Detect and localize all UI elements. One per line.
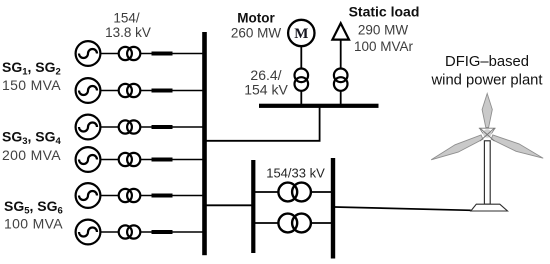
wire wind T upper left <box>255 191 279 193</box>
wire T3-bus <box>140 126 203 128</box>
wire SG2-T2 <box>100 90 119 92</box>
transformer T9 154/33 kV <box>278 183 311 202</box>
transformer T3 <box>119 120 141 133</box>
wire SG3-T3 <box>100 126 119 128</box>
wire load-T8 <box>340 40 342 69</box>
wire motorbus drop <box>319 107 321 141</box>
svg-text:M: M <box>294 26 308 42</box>
wind turbine blade right <box>491 135 543 158</box>
breaker segment row5 <box>152 194 173 198</box>
wire motor-T7 <box>300 46 302 69</box>
wind turbine blade top <box>482 94 492 128</box>
wire T8-motorbus <box>340 91 342 105</box>
label 26.4/154 kV <box>244 67 288 98</box>
svg-text:Static load: Static load <box>349 4 420 20</box>
main 154kV bus <box>202 32 207 255</box>
wire main bus to wind bus <box>204 204 253 206</box>
svg-text:SG1, SG2: SG1, SG2 <box>2 59 61 78</box>
transformer T10 154/33 kV <box>278 214 311 233</box>
generator SG6 <box>76 220 101 245</box>
wire T7-motorbus <box>300 91 302 105</box>
wire T1-bus <box>140 53 203 55</box>
svg-text:SG3, SG4: SG3, SG4 <box>2 128 62 147</box>
wire wind bus to plant <box>335 207 471 210</box>
svg-text:SG5, SG6: SG5, SG6 <box>4 198 63 217</box>
wire SG5-T5 <box>100 195 119 197</box>
static load arrow <box>332 23 349 39</box>
svg-text:100 MVAr: 100 MVAr <box>354 39 414 54</box>
wind turbine hub <box>479 128 496 141</box>
breaker segment row6 <box>152 230 173 234</box>
transformer T1 <box>119 47 141 60</box>
svg-text:wind power plant: wind power plant <box>430 73 542 89</box>
wind turbine tower <box>484 141 490 204</box>
motor bus 26.4kV <box>259 104 379 108</box>
generator SG3 <box>76 115 101 140</box>
generator SG5 <box>76 183 101 208</box>
svg-text:DFIG–based: DFIG–based <box>445 54 529 70</box>
wire T4-bus <box>140 159 203 161</box>
svg-text:200 MVA: 200 MVA <box>2 147 61 163</box>
transformer T8 <box>334 69 348 91</box>
label 154/13.8 kV <box>105 11 151 41</box>
wire SG4-T4 <box>100 159 119 161</box>
transformer T6 <box>119 225 141 238</box>
breaker segment row1 <box>152 52 173 56</box>
transformer T7 26.4/154 kV <box>295 69 309 91</box>
wire T2-bus <box>140 90 203 92</box>
wind left bus <box>251 160 255 253</box>
wind right bus <box>331 158 335 259</box>
svg-text:Motor: Motor <box>237 10 275 25</box>
generator SG1 <box>76 41 101 66</box>
svg-text:154/: 154/ <box>113 11 140 26</box>
wire wind T lower right <box>311 222 331 224</box>
wire wind T lower left <box>255 222 279 224</box>
wire SG1-T1 <box>100 53 119 55</box>
breaker segment row2 <box>152 89 173 93</box>
svg-text:13.8 kV: 13.8 kV <box>105 25 151 40</box>
wire drop to main bus <box>204 140 321 142</box>
motor M1 <box>288 20 314 46</box>
svg-text:290 MW: 290 MW <box>358 22 409 37</box>
wire T5-bus <box>140 195 203 197</box>
transformer T4 <box>119 153 141 166</box>
svg-text:260 MW: 260 MW <box>231 26 282 41</box>
wire T6-bus <box>140 231 203 233</box>
wind turbine blade left <box>431 135 483 160</box>
transformer T5 <box>119 189 141 202</box>
breaker segment row3 <box>152 125 173 129</box>
generator SG4 <box>76 147 101 172</box>
svg-text:154/33 kV: 154/33 kV <box>266 166 325 181</box>
breaker segment row4 <box>152 158 173 162</box>
generator SG2 <box>76 78 101 103</box>
svg-text:154 kV: 154 kV <box>244 82 288 98</box>
svg-text:150 MVA: 150 MVA <box>2 77 61 93</box>
wind turbine base <box>471 204 508 211</box>
wire SG6-T6 <box>100 231 119 233</box>
wire wind T upper right <box>311 191 331 193</box>
svg-text:100 MVA: 100 MVA <box>4 215 63 231</box>
transformer T2 <box>119 84 141 97</box>
